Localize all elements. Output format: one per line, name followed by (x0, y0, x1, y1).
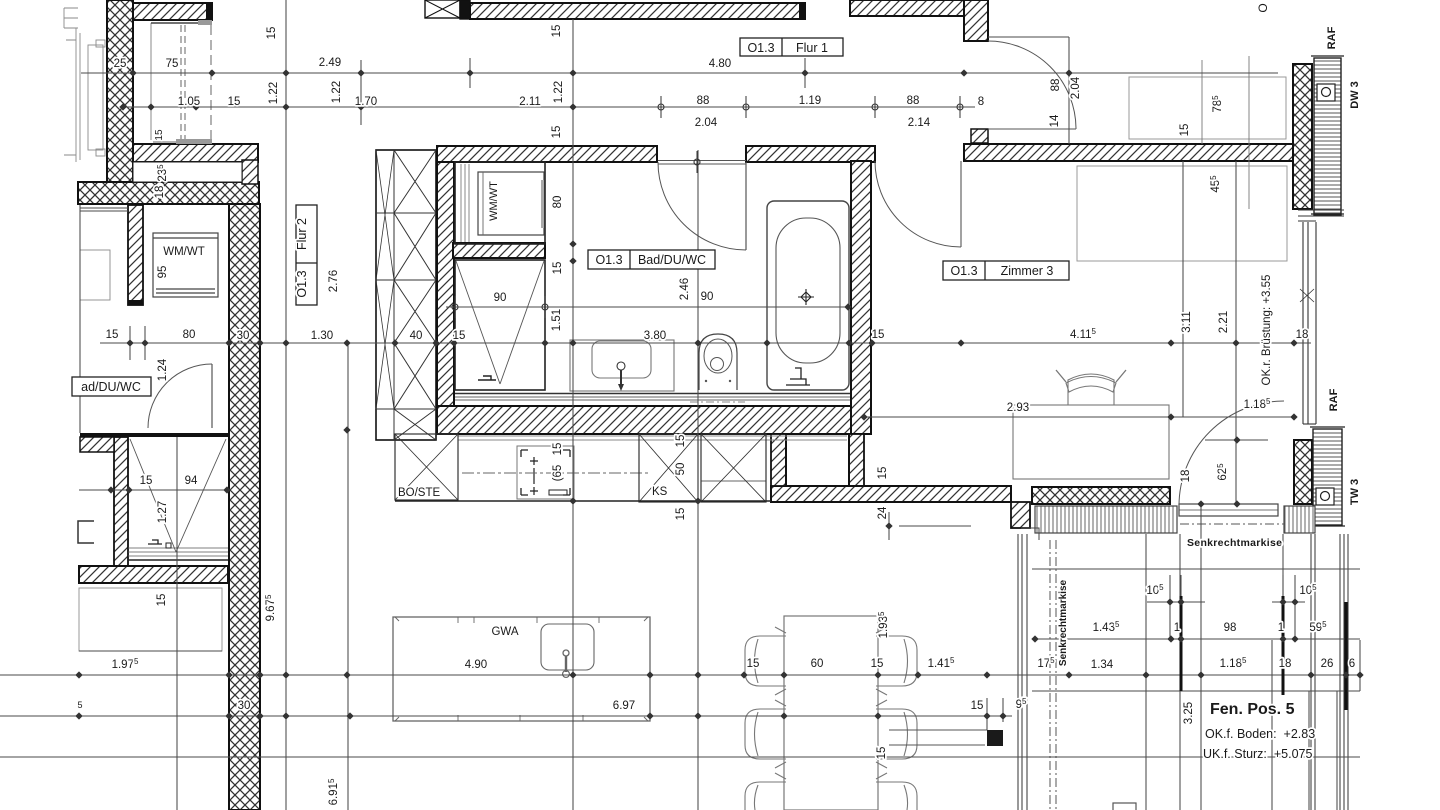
svg-text:30: 30 (237, 330, 250, 342)
toilet (699, 334, 737, 390)
svg-text:TW 3: TW 3 (1349, 479, 1361, 505)
wall: top-left small hatched band (133, 2, 212, 21)
cooktop (517, 446, 574, 499)
svg-text:8: 8 (978, 96, 984, 108)
RAF shutter band DW3 top right (1311, 56, 1344, 215)
svg-text:15: 15 (552, 443, 564, 456)
shaft lattice column (376, 150, 436, 440)
wall: hatched band above niche (133, 144, 258, 184)
svg-text:2.14: 2.14 (908, 117, 931, 129)
kitchen counter edge lines (458, 436, 847, 440)
svg-text:O1.3: O1.3 (950, 264, 977, 278)
svg-text:UK.f. Sturz: +5.075: UK.f. Sturz: +5.075 (1203, 747, 1312, 761)
svg-text:6.97: 6.97 (613, 700, 635, 712)
svg-text:1: 1 (1278, 622, 1284, 634)
wall: left horizontal crosshatch band (78, 182, 259, 204)
svg-text:88: 88 (697, 95, 710, 107)
svg-text:3.80: 3.80 (644, 330, 666, 342)
svg-text:30: 30 (238, 700, 251, 712)
svg-text:1.51: 1.51 (551, 309, 563, 331)
svg-text:3.25: 3.25 (1183, 702, 1195, 724)
wall: bathroom bottom hatch (437, 406, 860, 434)
label O1.3 Flur 2 rotated (295, 205, 317, 305)
svg-text:15: 15 (876, 747, 888, 760)
TW3 shutter band (1310, 427, 1345, 526)
label O1.3 Zimmer 3 (943, 261, 1069, 280)
door arc zimmer3 (875, 161, 961, 247)
window annotation block (1187, 537, 1315, 761)
wall: top hatch main (Flur1 top) (470, 3, 805, 19)
wall: top hatch right segment (850, 0, 971, 16)
door arc flur1 entry (988, 41, 1076, 129)
svg-text:6: 6 (1349, 658, 1355, 670)
svg-text:98: 98 (1224, 622, 1237, 634)
svg-text:1.19: 1.19 (799, 95, 821, 107)
svg-text:1.24: 1.24 (157, 358, 169, 381)
svg-text:2.46: 2.46 (679, 278, 691, 300)
washbasin counter (570, 340, 674, 391)
zimmer3 desk chair (1056, 370, 1126, 405)
wall: left vertical hatch between rooms (128, 205, 143, 305)
shower tray (455, 260, 545, 390)
wall: lower-left horizontal hatch band (79, 566, 228, 583)
svg-text:DW 3: DW 3 (1349, 81, 1361, 109)
svg-text:15: 15 (877, 467, 889, 480)
svg-text:Zimmer 3: Zimmer 3 (1001, 264, 1054, 278)
svg-text:15: 15 (140, 475, 153, 487)
svg-text:14: 14 (1049, 114, 1061, 127)
svg-text:1.05: 1.05 (178, 96, 200, 108)
svg-text:80: 80 (183, 329, 196, 341)
svg-text:90: 90 (701, 291, 714, 303)
svg-text:80: 80 (552, 196, 564, 209)
door arc balcony (1179, 401, 1284, 506)
svg-text:KS: KS (652, 486, 668, 498)
svg-text:15: 15 (154, 129, 165, 141)
wall: top-left vertical crosshatch (107, 0, 133, 184)
bottom-left room outline (79, 588, 222, 651)
zimmer3 desk (1013, 405, 1169, 479)
label O1.3 Bad/DU/WC (588, 250, 715, 269)
niche white box (786, 434, 849, 486)
svg-text:60: 60 (811, 658, 824, 670)
balcony sill band under zimmer3 (1021, 504, 1315, 540)
chairs left column (745, 627, 786, 810)
svg-text:15: 15 (228, 96, 241, 108)
wall: shelf hatch band under WM/WT (453, 243, 545, 258)
svg-text:(65: (65 (552, 465, 564, 482)
svg-text:25: 25 (114, 58, 127, 70)
svg-text:15: 15 (872, 329, 885, 341)
svg-text:15: 15 (551, 25, 563, 38)
senkrechtmarkise dash-dot lines (1050, 524, 1284, 810)
lower-left basin niche (78, 521, 94, 543)
svg-text:OK.f. Boden: +2.83: OK.f. Boden: +2.83 (1205, 727, 1315, 741)
svg-text:18: 18 (1296, 329, 1309, 341)
svg-text:WM/WT: WM/WT (488, 181, 500, 221)
svg-text:1.34: 1.34 (1091, 659, 1114, 671)
svg-text:18: 18 (154, 186, 166, 199)
svg-text:1: 1 (1174, 622, 1180, 634)
wall: bathroom top hatch right segment (746, 146, 875, 162)
dining table (784, 616, 878, 810)
wall: zimmer3 top hatch (964, 144, 1295, 161)
BO/STE box (395, 434, 458, 500)
svg-text:18: 18 (1279, 658, 1292, 670)
horizontal dim lines (0, 73, 1360, 757)
left WM/WT machine (153, 233, 218, 297)
right lower glazing lines (1018, 534, 1348, 810)
wall: bathroom top hatch left segment (437, 146, 657, 162)
wall: flur1 right vertical stub (964, 0, 988, 143)
kitchen centerline dash-dot (462, 472, 648, 474)
svg-text:RAF: RAF (1328, 388, 1340, 411)
svg-text:1.30: 1.30 (311, 330, 333, 342)
svg-text:15: 15 (266, 27, 278, 40)
wall: zimmer3 bottom hatch (771, 486, 1011, 502)
svg-text:Senkrechtmarkise: Senkrechtmarkise (1187, 537, 1282, 549)
svg-text:15: 15 (156, 594, 168, 607)
svg-text:94: 94 (185, 475, 198, 487)
svg-text:18: 18 (1180, 470, 1192, 483)
door arc bathroom (658, 162, 746, 250)
svg-text:88: 88 (907, 95, 920, 107)
svg-text:2.04: 2.04 (1070, 76, 1082, 99)
svg-text:15: 15 (675, 435, 687, 448)
kitchen row bottom line (395, 500, 771, 502)
svg-text:2.11: 2.11 (519, 96, 541, 108)
wall: bathroom left vertical hatch (437, 147, 454, 425)
wall: balcony crosshatch band (1032, 487, 1170, 504)
label ad/DU/WC (72, 377, 151, 396)
svg-text:15: 15 (747, 658, 760, 670)
kitchen end X box (701, 434, 766, 502)
svg-text:Fen. Pos. 5: Fen. Pos. 5 (1210, 701, 1295, 718)
svg-text:15: 15 (106, 329, 119, 341)
bathroom bottom ledge lines (455, 394, 850, 401)
lower-left shower room (128, 439, 228, 560)
svg-text:3.11: 3.11 (1181, 311, 1193, 333)
svg-text:2.49: 2.49 (319, 57, 341, 69)
wall: right crosshatch pier top (1293, 64, 1312, 209)
svg-text:GWA: GWA (491, 626, 518, 638)
wall: lower-left top line (80, 433, 228, 437)
svg-text:15: 15 (552, 262, 564, 275)
svg-text:Flur 1: Flur 1 (796, 41, 828, 55)
svg-text:1.22: 1.22 (553, 81, 565, 103)
structural column black (889, 730, 1003, 746)
chairs right column (876, 627, 917, 810)
svg-text:15: 15 (871, 658, 884, 670)
washing machine WM/WT (455, 162, 545, 244)
shaft X box at top wall (425, 0, 470, 19)
wall: kitchen niche left vertical hatch (771, 434, 786, 486)
wall: right crosshatch pier at TW3 (1294, 440, 1312, 504)
thick reference verticals right zone (1181, 596, 1346, 710)
niche outline 23.5 (133, 162, 242, 182)
svg-text:95: 95 (157, 266, 169, 279)
hall wardrobe (1129, 56, 1286, 209)
svg-text:15: 15 (971, 700, 984, 712)
label O1.3 Flur 1 (740, 38, 843, 56)
svg-text:2.76: 2.76 (328, 270, 340, 292)
svg-text:WM/WT: WM/WT (163, 246, 205, 258)
bathtub (767, 201, 849, 390)
svg-text:26: 26 (1321, 658, 1334, 670)
GWA kitchen island (393, 617, 650, 721)
svg-text:15: 15 (551, 126, 563, 139)
svg-text:15: 15 (453, 330, 466, 342)
wall: bath/zimmer separating vertical (849, 161, 871, 487)
svg-text:RAF: RAF (1326, 26, 1338, 49)
svg-text:40: 40 (410, 330, 423, 342)
svg-text:O1.3: O1.3 (747, 41, 774, 55)
svg-text:BO/STE: BO/STE (398, 487, 441, 499)
bathroom door threshold (658, 161, 746, 165)
svg-text:Bad/DU/WC: Bad/DU/WC (638, 253, 706, 267)
svg-text:2.21: 2.21 (1218, 311, 1230, 333)
svg-text:Senkrechtmarkise: Senkrechtmarkise (1058, 579, 1069, 666)
svg-text:1.27: 1.27 (157, 501, 169, 523)
wall: lower-left vertical hatch (114, 437, 128, 567)
zimmer3 bed (1077, 166, 1287, 261)
left closet dashed (151, 20, 212, 144)
svg-text:2.04: 2.04 (695, 117, 718, 129)
wall: step hatch at balcony corner (1011, 502, 1030, 528)
svg-text:15: 15 (675, 508, 687, 521)
window glazing right (Zimmer3) (1298, 210, 1344, 424)
wall: main vertical crosshatch spine (229, 204, 260, 810)
svg-text:2.93: 2.93 (1007, 402, 1029, 414)
svg-text:4.80: 4.80 (709, 58, 731, 70)
svg-text:90: 90 (494, 292, 507, 304)
small furniture rect bottom right (1113, 803, 1136, 810)
svg-text:OK.r. Brüstung: +3.55: OK.r. Brüstung: +3.55 (1261, 275, 1273, 386)
svg-text:ad/DU/WC: ad/DU/WC (81, 380, 141, 394)
KS box (639, 434, 698, 502)
svg-text:5: 5 (77, 700, 82, 710)
svg-text:4.90: 4.90 (465, 659, 487, 671)
svg-text:Flur 2: Flur 2 (295, 218, 309, 250)
svg-text:1.70: 1.70 (355, 96, 377, 108)
svg-text:75: 75 (166, 58, 179, 70)
wall: small hatch piece left of lower door (80, 437, 114, 452)
svg-text:1.22: 1.22 (268, 82, 280, 104)
left neighbour faint outlines (64, 8, 110, 300)
door arc lower-left room (148, 364, 212, 428)
svg-text:1.22: 1.22 (331, 81, 343, 103)
svg-text:15: 15 (1179, 124, 1191, 137)
svg-text:88: 88 (1050, 79, 1062, 92)
svg-text:50: 50 (675, 463, 687, 476)
svg-text:O1.3: O1.3 (595, 253, 622, 267)
svg-text:O: O (1256, 3, 1270, 12)
bathroom deco dashed line (690, 401, 745, 403)
svg-text:24: 24 (877, 506, 889, 519)
svg-text:O1.3: O1.3 (295, 270, 309, 297)
